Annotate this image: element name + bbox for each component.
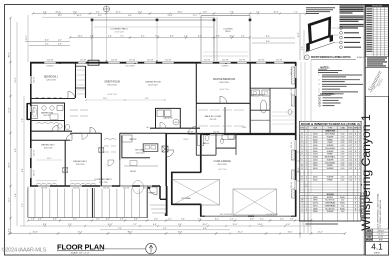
svg-text:MASTER BEDROOM: MASTER BEDROOM xyxy=(213,78,235,81)
svg-text:PANTRY: PANTRY xyxy=(129,138,137,141)
svg-text:1: 1 xyxy=(306,200,307,202)
svg-text:3'-6": 3'-6" xyxy=(53,219,57,221)
right dimension lines xyxy=(299,14,301,60)
svg-text:6050: 6050 xyxy=(313,139,317,141)
svg-text:4'-0": 4'-0" xyxy=(184,36,188,38)
svg-text:6050: 6050 xyxy=(313,168,317,170)
svg-text:SHEET: SHEET xyxy=(374,253,381,255)
svg-text:3050 SH: 3050 SH xyxy=(291,142,293,148)
svg-text:GREAT ROOM: GREAT ROOM xyxy=(104,81,120,84)
hall linen dashes xyxy=(104,145,116,147)
svg-text:3050: 3050 xyxy=(313,162,317,164)
svg-text:8'-0": 8'-0" xyxy=(9,228,11,232)
svg-text:6'-4": 6'-4" xyxy=(15,193,17,197)
svg-text:0.22: 0.22 xyxy=(349,148,353,150)
bathroom fixtures xyxy=(32,106,38,119)
svg-text:2: 2 xyxy=(319,79,320,81)
svg-text:0.30: 0.30 xyxy=(341,162,345,164)
svg-text:COVERED PATIO: COVERED PATIO xyxy=(94,178,112,181)
svg-text:6'-0": 6'-0" xyxy=(198,36,202,38)
kitchen darker details xyxy=(121,136,123,158)
svg-text:1: 1 xyxy=(306,211,307,213)
svg-text:SCOTTSDALE, ARIZONA 85266: SCOTTSDALE, ARIZONA 85266 xyxy=(379,199,382,230)
svg-text:3050 SH: 3050 SH xyxy=(239,60,245,62)
svg-text:J: J xyxy=(301,157,302,159)
svg-text:4'-6": 4'-6" xyxy=(120,219,124,221)
svg-text:1: 1 xyxy=(306,157,307,159)
interior door X markers xyxy=(99,148,104,153)
svg-text:0.22: 0.22 xyxy=(349,142,353,144)
bed3 door arc xyxy=(82,133,88,139)
svg-text:14'-0": 14'-0" xyxy=(288,232,293,234)
svg-text:+10'-0" CLG: +10'-0" CLG xyxy=(107,94,117,96)
svg-text:FIXED: FIXED xyxy=(327,154,333,156)
svg-text:LAUNDRY: LAUNDRY xyxy=(163,117,173,120)
svg-text:8'-2": 8'-2" xyxy=(215,219,219,221)
sheet number box xyxy=(365,241,388,255)
bath1 extra fixtures xyxy=(50,114,58,120)
svg-text:EGRESS: EGRESS xyxy=(47,65,54,67)
exterior wall left xyxy=(30,62,32,187)
svg-text:5'-6": 5'-6" xyxy=(280,219,284,221)
svg-text:3050 SH: 3050 SH xyxy=(103,188,109,190)
svg-text:SOFFIT: SOFFIT xyxy=(183,139,188,141)
svg-text:2020: 2020 xyxy=(313,154,317,156)
bed2 wardrobe scallops xyxy=(36,183,57,184)
detail title xyxy=(304,55,309,60)
svg-text:→NOTES←: →NOTES← xyxy=(318,66,331,69)
svg-text:47'-2": 47'-2" xyxy=(115,11,120,13)
svg-text:5'-2": 5'-2" xyxy=(155,36,159,38)
svg-text:3050 SH: 3050 SH xyxy=(34,77,36,83)
svg-text:3050 SH: 3050 SH xyxy=(291,182,293,188)
svg-text:8'-8": 8'-8" xyxy=(216,36,220,38)
svg-text:2880: 2880 xyxy=(313,200,317,202)
svg-text:1: 1 xyxy=(306,168,307,170)
svg-text:12'0 X 13'6: 12'0 X 13'6 xyxy=(46,80,55,82)
master suite extra walls xyxy=(235,133,237,155)
svg-text:ENTRY: ENTRY xyxy=(327,197,334,199)
svg-text:11'0 X 12'0: 11'0 X 12'0 xyxy=(148,85,157,87)
entry porch posts xyxy=(148,187,150,189)
svg-text:0.22: 0.22 xyxy=(349,136,353,138)
svg-text:4: 4 xyxy=(319,89,320,91)
svg-text:3050 SH: 3050 SH xyxy=(291,89,293,95)
svg-text:28'-0": 28'-0" xyxy=(177,11,182,13)
hall door arc xyxy=(108,160,114,166)
svg-text:5'-6": 5'-6" xyxy=(118,228,122,230)
svg-text:0.30: 0.30 xyxy=(341,177,345,179)
svg-text:10'-2": 10'-2" xyxy=(58,15,63,17)
door & window schedule table xyxy=(300,121,362,221)
svg-text:9'-6": 9'-6" xyxy=(15,148,17,152)
garage man door xyxy=(188,133,196,135)
svg-text:SLIDER: SLIDER xyxy=(327,168,334,170)
entry recess walls xyxy=(159,186,161,199)
svg-text:2630: 2630 xyxy=(313,142,317,144)
svg-text:6'-8": 6'-8" xyxy=(203,228,207,230)
svg-text:2680: 2680 xyxy=(313,208,317,210)
hall bath fixtures extra xyxy=(220,139,224,144)
svg-text:L: L xyxy=(301,162,302,164)
svg-text:0.30: 0.30 xyxy=(341,139,345,141)
covered patio stripes xyxy=(27,189,29,218)
detail sill line xyxy=(306,42,335,52)
svg-text:FIXED: FIXED xyxy=(327,139,333,141)
svg-text:0.30: 0.30 xyxy=(341,157,345,159)
svg-text:3050 SH: 3050 SH xyxy=(165,60,171,62)
svg-text:3050 SH: 3050 SH xyxy=(204,60,210,62)
svg-text:12'-2": 12'-2" xyxy=(202,224,207,226)
svg-text:SC WOOD: SC WOOD xyxy=(325,200,335,202)
svg-text:14'-2": 14'-2" xyxy=(77,36,82,38)
svg-text:SLIDER: SLIDER xyxy=(327,177,334,179)
svg-text:0.22: 0.22 xyxy=(349,168,353,170)
svg-text:COVERED PATIO: COVERED PATIO xyxy=(110,28,128,31)
svg-text:1: 1 xyxy=(306,145,307,147)
svg-text:5'-8": 5'-8" xyxy=(58,44,62,46)
detail leader dashes xyxy=(332,27,340,29)
kitchen extra xyxy=(124,165,158,167)
svg-text:3050 SH: 3050 SH xyxy=(34,170,36,176)
svg-text:0.30: 0.30 xyxy=(341,151,345,153)
top dimension lines xyxy=(33,13,306,15)
svg-text:2: 2 xyxy=(306,136,307,138)
svg-text:10'-0": 10'-0" xyxy=(229,36,234,38)
svg-text:0.22: 0.22 xyxy=(349,180,353,182)
svg-text:12080: 12080 xyxy=(313,157,318,159)
svg-text:1: 1 xyxy=(306,180,307,182)
svg-text:10'-4": 10'-4" xyxy=(233,224,238,226)
svg-text:U-VAL: U-VAL xyxy=(340,127,345,130)
general notes column xyxy=(340,5,364,7)
svg-text:+9'-0" CLG: +9'-0" CLG xyxy=(218,169,227,171)
svg-text:REVISIONS: REVISIONS xyxy=(372,6,383,8)
svg-text:0.22: 0.22 xyxy=(349,165,353,167)
svg-text:7'-2": 7'-2" xyxy=(133,224,137,226)
more bottom ticks xyxy=(44,225,46,227)
isometric window frame detail xyxy=(308,16,331,44)
laundry washer dryer xyxy=(157,110,164,117)
svg-text:0.22: 0.22 xyxy=(349,151,353,153)
svg-text:3050 SH: 3050 SH xyxy=(47,60,53,62)
svg-text:5'-4": 5'-4" xyxy=(108,36,112,38)
svg-text:4'-2": 4'-2" xyxy=(58,40,62,42)
svg-text:©2024 IAAAR-MLS: ©2024 IAAAR-MLS xyxy=(2,247,47,254)
svg-text:CSMT: CSMT xyxy=(327,142,333,144)
svg-text:11'0 X 11'0: 11'0 X 11'0 xyxy=(76,164,85,166)
svg-text:3: 3 xyxy=(306,151,307,153)
door arcs xyxy=(68,92,75,99)
fireplace xyxy=(88,60,99,65)
svg-text:14'-6": 14'-6" xyxy=(32,232,37,234)
svg-text:14'0 X 16'0: 14'0 X 16'0 xyxy=(219,82,228,84)
windows top wall xyxy=(44,62,56,64)
svg-text:+10'-0" CLG: +10'-0" CLG xyxy=(219,89,229,91)
garage skylight box 2 xyxy=(233,189,277,215)
svg-text:2: 2 xyxy=(301,200,302,202)
svg-text:8060: 8060 xyxy=(313,151,317,153)
svg-text:1: 1 xyxy=(319,75,320,77)
svg-text:4.1: 4.1 xyxy=(371,243,383,252)
bathroom walls xyxy=(30,102,65,104)
svg-text:1: 1 xyxy=(301,197,302,199)
svg-text:3080: 3080 xyxy=(313,197,317,199)
svg-text:0.30: 0.30 xyxy=(341,159,345,161)
svg-text:SCALE: 1/4" = 1'-0": SCALE: 1/4" = 1'-0" xyxy=(70,251,89,254)
master closet shelves xyxy=(272,111,294,113)
svg-text:INSUL: INSUL xyxy=(340,203,345,205)
svg-text:4'-0": 4'-0" xyxy=(230,219,234,221)
svg-text:+9'-0" CLG: +9'-0" CLG xyxy=(114,31,124,33)
nook table xyxy=(133,181,144,194)
svg-text:7'-4": 7'-4" xyxy=(120,36,124,38)
svg-text:0.30: 0.30 xyxy=(341,148,345,150)
numbered note items xyxy=(340,27,343,30)
north arrow line xyxy=(104,248,146,250)
svg-text:0.22: 0.22 xyxy=(349,134,353,136)
svg-text:3050 SH: 3050 SH xyxy=(187,132,193,134)
svg-text:6'-2": 6'-2" xyxy=(73,219,77,221)
svg-text:1: 1 xyxy=(306,197,307,199)
svg-text:PATIO: PATIO xyxy=(225,30,231,33)
svg-text:0.30: 0.30 xyxy=(341,168,345,170)
windows bottom bedroom wall xyxy=(38,185,50,187)
svg-text:SLIDER: SLIDER xyxy=(327,159,334,161)
svg-text:→KEYNOTES←: →KEYNOTES← xyxy=(318,93,336,96)
wc toilet xyxy=(66,124,70,130)
svg-text:3050 SH: 3050 SH xyxy=(291,69,293,75)
svg-text:2: 2 xyxy=(306,159,307,161)
closet shelves bed1 xyxy=(77,69,85,71)
svg-text:6'-0": 6'-0" xyxy=(302,46,304,50)
svg-text:10'-6": 10'-6" xyxy=(26,35,28,40)
svg-text:3030: 3030 xyxy=(313,148,317,150)
svg-text:12'6 X 14'0: 12'6 X 14'0 xyxy=(136,152,145,154)
svg-text:0.30: 0.30 xyxy=(341,165,345,167)
window detail notes text xyxy=(306,7,335,9)
misc marks xyxy=(106,60,108,62)
svg-text:11'0 X 11'6: 11'0 X 11'6 xyxy=(44,147,53,149)
svg-text:SGL HUNG: SGL HUNG xyxy=(325,148,335,150)
svg-text:1: 1 xyxy=(306,205,307,207)
svg-text:4040: 4040 xyxy=(313,136,317,138)
windows right wall xyxy=(295,66,297,78)
interior dim bed2 xyxy=(36,159,62,161)
revision table xyxy=(365,9,388,11)
svg-text:9'-1": 9'-1" xyxy=(141,36,145,38)
svg-text:6'-2": 6'-2" xyxy=(96,11,100,13)
svg-text:SLIDER: SLIDER xyxy=(327,151,334,153)
svg-text:0.30: 0.30 xyxy=(341,142,345,144)
svg-text:31'-2": 31'-2" xyxy=(237,232,242,234)
svg-text:8'-4": 8'-4" xyxy=(22,168,24,172)
svg-text:0.30: 0.30 xyxy=(341,134,345,136)
svg-text:7'-0": 7'-0" xyxy=(294,11,298,13)
svg-text:20'0 X 24'6: 20'0 X 24'6 xyxy=(217,164,226,166)
svg-text:4: 4 xyxy=(306,142,307,144)
svg-text:SC WOOD: SC WOOD xyxy=(325,208,335,210)
svg-text:8'-0": 8'-0" xyxy=(98,15,102,17)
svg-text:3050 SH: 3050 SH xyxy=(80,60,86,62)
logo box with script signature xyxy=(365,67,388,96)
exterior wall top xyxy=(30,62,296,64)
svg-text:0.30: 0.30 xyxy=(341,145,345,147)
svg-text:4'-2": 4'-2" xyxy=(38,219,42,221)
svg-text:1: 1 xyxy=(306,208,307,210)
svg-text:1: 1 xyxy=(306,134,307,136)
revision table header xyxy=(365,5,388,8)
svg-text:3'-0": 3'-0" xyxy=(96,219,100,221)
svg-text:0.30: 0.30 xyxy=(341,136,345,138)
svg-text:4: 4 xyxy=(306,177,307,179)
svg-text:3050: 3050 xyxy=(313,134,317,136)
svg-text:6'-6": 6'-6" xyxy=(128,15,132,17)
interior walls bedroom1 & closet xyxy=(75,63,77,98)
entry steps xyxy=(150,204,166,206)
svg-text:NOOK: NOOK xyxy=(130,171,137,173)
svg-text:BEDROOM 1: BEDROOM 1 xyxy=(44,77,59,79)
svg-text:16070: 16070 xyxy=(313,203,318,205)
svg-text:5: 5 xyxy=(301,208,302,210)
svg-text:3'-6": 3'-6" xyxy=(134,219,138,221)
master suite walls xyxy=(195,63,197,103)
svg-text:3: 3 xyxy=(306,139,307,141)
kitchen counters and island xyxy=(121,135,123,158)
svg-text:2'-6": 2'-6" xyxy=(31,219,35,221)
svg-text:3: 3 xyxy=(301,203,302,205)
svg-text:BEDROOM 3: BEDROOM 3 xyxy=(73,161,87,163)
svg-text:4'-2": 4'-2" xyxy=(106,219,110,221)
svg-text:6080: 6080 xyxy=(313,211,317,213)
svg-text:8'-6": 8'-6" xyxy=(170,36,174,38)
svg-text:0.22: 0.22 xyxy=(349,177,353,179)
svg-text:11'-0": 11'-0" xyxy=(47,158,52,160)
wardrobe scallops xyxy=(34,98,63,100)
svg-text:3'-0": 3'-0" xyxy=(90,36,94,38)
left dimension lines xyxy=(10,18,12,234)
svg-text:2 CAR GARAGE: 2 CAR GARAGE xyxy=(213,160,231,163)
svg-text:6'-2": 6'-2" xyxy=(241,36,245,38)
svg-text:WALK-IN CLOSET: WALK-IN CLOSET xyxy=(205,115,223,118)
svg-text:3'-2": 3'-2" xyxy=(168,219,172,221)
svg-text:0.22: 0.22 xyxy=(349,159,353,161)
title block border xyxy=(363,5,365,256)
notes underlined lines xyxy=(318,70,342,72)
grid bubble xyxy=(104,6,110,12)
svg-text:BATH 2: BATH 2 xyxy=(203,142,209,145)
svg-text:0.30: 0.30 xyxy=(341,154,345,156)
hall / bed2 bed3 walls xyxy=(30,139,70,141)
svg-text:3: 3 xyxy=(319,84,320,86)
svg-text:12'-0": 12'-0" xyxy=(15,77,17,82)
bed3 wardrobe scallops xyxy=(70,183,96,184)
svg-text:6'-2": 6'-2" xyxy=(260,219,264,221)
svg-text:OVERHEAD: OVERHEAD xyxy=(325,202,336,205)
bath2 fixtures xyxy=(198,135,204,146)
svg-text:BEDROOM 2: BEDROOM 2 xyxy=(41,145,55,147)
svg-text:0.30: 0.30 xyxy=(341,200,344,202)
bottom wall bedrooms xyxy=(30,185,160,187)
svg-text:SLIDER: SLIDER xyxy=(327,145,334,147)
svg-text:0.30: 0.30 xyxy=(341,205,344,207)
svg-text:12'-2": 12'-2" xyxy=(193,15,198,17)
exterior wall right xyxy=(295,62,297,217)
svg-text:3'-1": 3'-1" xyxy=(45,44,49,46)
svg-text:2: 2 xyxy=(306,148,307,150)
svg-text:20'-4": 20'-4" xyxy=(273,11,278,13)
svg-text:12'-6": 12'-6" xyxy=(103,98,108,100)
svg-text:3050 SH: 3050 SH xyxy=(129,60,135,62)
svg-text:10'-2": 10'-2" xyxy=(298,32,300,37)
svg-text:4040: 4040 xyxy=(313,177,317,179)
covered patio top outline xyxy=(92,19,214,21)
svg-text:4: 4 xyxy=(306,154,307,156)
svg-text:7'-4": 7'-4" xyxy=(181,219,185,221)
svg-text:22'-4": 22'-4" xyxy=(9,162,11,167)
bath bump-out wall xyxy=(26,103,28,120)
north arrow xyxy=(146,243,157,254)
hall closet dashes xyxy=(70,109,88,111)
firm name block xyxy=(365,56,388,67)
svg-text:4040: 4040 xyxy=(313,159,317,161)
detail frame feet xyxy=(306,42,310,51)
svg-text:0.22: 0.22 xyxy=(349,162,353,164)
svg-text:SYM: SYM xyxy=(300,128,304,130)
svg-text:19'0 X 22'0: 19'0 X 22'0 xyxy=(107,85,116,87)
svg-text:16/7 OH DOOR: 16/7 OH DOOR xyxy=(220,214,233,216)
svg-text:16'-2": 16'-2" xyxy=(9,107,11,112)
bottom dimension lines xyxy=(28,220,311,222)
svg-text:6'-0": 6'-0" xyxy=(286,224,290,226)
patio posts bottom xyxy=(92,188,94,218)
svg-text:SGL HUNG: SGL HUNG xyxy=(325,134,335,136)
svg-text:3050 SH: 3050 SH xyxy=(213,132,219,134)
laundry walls xyxy=(155,107,180,109)
svg-text:34'-6": 34'-6" xyxy=(55,11,60,13)
svg-text:3050 SH: 3050 SH xyxy=(34,150,36,156)
hatched closet strips right xyxy=(291,67,295,84)
info table xyxy=(365,229,372,232)
extra dim texture xyxy=(300,62,302,133)
svg-text:4: 4 xyxy=(306,165,307,167)
svg-text:28'-6": 28'-6" xyxy=(9,52,11,57)
svg-text:6050: 6050 xyxy=(313,180,317,182)
svg-text:DOOR & WINDOW SCHEDULE (ZONE 4: DOOR & WINDOW SCHEDULE (ZONE 4) xyxy=(301,122,360,126)
svg-text:0.22: 0.22 xyxy=(349,154,353,156)
svg-text:SLIDER: SLIDER xyxy=(327,211,334,213)
svg-text:12'-4": 12'-4" xyxy=(317,232,322,234)
svg-text:DOORS: DOORS xyxy=(327,194,335,196)
svg-text:12'-2": 12'-2" xyxy=(9,197,11,202)
svg-text:3050 SH: 3050 SH xyxy=(34,107,36,113)
svg-text:9070: 9070 xyxy=(313,205,317,207)
svg-text:INSUL: INSUL xyxy=(340,208,345,210)
svg-text:2650: 2650 xyxy=(313,165,317,167)
svg-text:3050 SH: 3050 SH xyxy=(123,188,129,190)
svg-text:6'-4": 6'-4" xyxy=(153,224,157,226)
svg-text:8'-0": 8'-0" xyxy=(250,219,254,221)
svg-text:14'-2": 14'-2" xyxy=(76,15,81,17)
svg-text:1: 1 xyxy=(306,203,307,205)
svg-text:OVERHEAD: OVERHEAD xyxy=(325,204,336,207)
svg-text:0.22: 0.22 xyxy=(349,157,353,159)
window garage wall xyxy=(210,133,224,135)
svg-text:8'0 X 9'0: 8'0 X 9'0 xyxy=(210,119,217,121)
svg-text:INSUL: INSUL xyxy=(340,197,345,199)
svg-text:8'0 X 6'0: 8'0 X 6'0 xyxy=(44,115,51,117)
svg-text:5'-0": 5'-0" xyxy=(22,203,24,207)
